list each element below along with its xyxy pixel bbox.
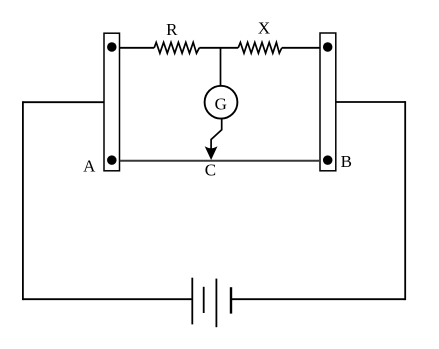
terminal dot A (bottom-left) <box>107 155 117 165</box>
wire right rail up <box>404 101 406 300</box>
svg-text:B: B <box>341 152 352 171</box>
terminal dot top-right <box>323 42 333 52</box>
svg-text:R: R <box>166 20 178 39</box>
wire X to right post <box>282 47 320 49</box>
resistor X <box>238 42 282 53</box>
wire node to galvanometer <box>220 48 222 86</box>
wire bottom left to battery <box>23 298 192 300</box>
svg-text:C: C <box>205 161 216 180</box>
battery short plate 1 <box>203 287 205 313</box>
svg-text:A: A <box>83 157 96 176</box>
galvanometer G <box>205 86 238 119</box>
svg-text:G: G <box>215 94 227 113</box>
svg-text:X: X <box>258 18 270 37</box>
jockey wire from G <box>211 119 222 151</box>
resistor R <box>154 42 199 53</box>
wire left post to left rail <box>23 101 104 103</box>
terminal dot B (bottom-right) <box>323 155 333 165</box>
wire R to X (through node above G) <box>199 47 238 49</box>
battery long plate 2 <box>215 279 217 328</box>
right binding strip <box>320 33 336 171</box>
battery long plate 1 <box>191 278 193 325</box>
terminal dot top-left <box>107 42 117 52</box>
wire left rail down <box>22 101 24 300</box>
jockey arrowhead at C <box>206 147 217 159</box>
battery short plate 2 <box>230 287 232 313</box>
wire right rail to right post <box>336 101 405 103</box>
bridge wire A-B <box>120 160 320 162</box>
wire battery to right rail <box>231 298 405 300</box>
wire top-left post to R <box>120 47 155 49</box>
left binding strip <box>104 33 120 171</box>
